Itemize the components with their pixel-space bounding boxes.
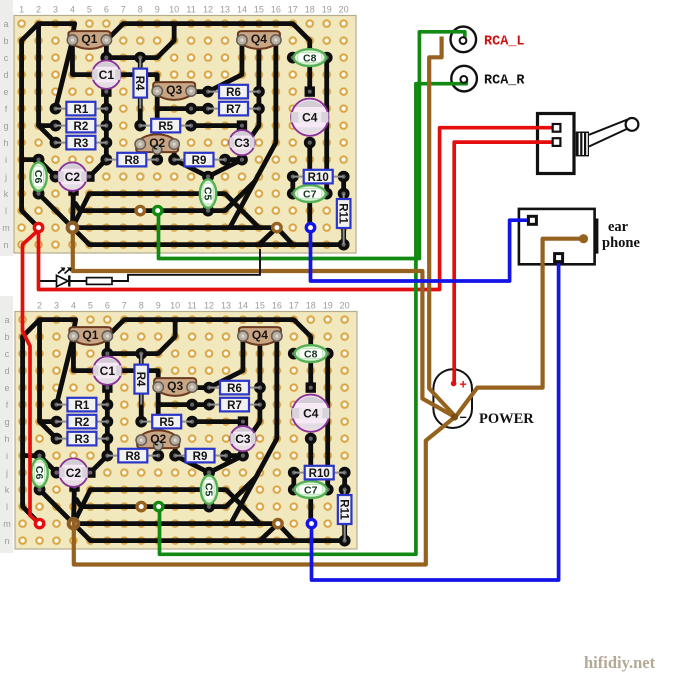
svg-text:hifidiy.net: hifidiy.net	[584, 653, 656, 672]
svg-text:RCA_R: RCA_R	[484, 74, 525, 89]
wire red switch terminal 2 to power plus	[454, 142, 552, 382]
wire green board2 to RCA_R pin	[160, 80, 467, 555]
board 2	[3, 301, 357, 550]
svg-text:−: −	[460, 411, 467, 425]
toggle switch body	[538, 114, 639, 174]
POWER plus terminal	[451, 378, 467, 392]
svg-text:RCA_L: RCA_L	[484, 35, 525, 50]
wire blue board1 ring to earphone tip	[311, 220, 531, 281]
board 1	[2, 5, 356, 254]
wire brown board1 hub to power minus	[73, 231, 453, 416]
diode and resistor power feed line	[40, 249, 260, 287]
left gutter board1	[0, 0, 13, 256]
wire green board1 to RCA_L pin	[159, 32, 465, 259]
svg-text:ear: ear	[608, 219, 629, 235]
RCA_R jack body	[451, 66, 477, 92]
wire brown RCA shells to power minus	[429, 37, 453, 415]
svg-text:+: +	[460, 378, 467, 392]
switch terminal 2	[553, 138, 561, 146]
wire brown power minus to board2 hub	[74, 417, 456, 565]
svg-text:POWER: POWER	[479, 411, 534, 427]
svg-text:phone: phone	[602, 235, 640, 251]
POWER minus terminal	[451, 411, 467, 425]
wire red board1 ring to switch terminal 1	[39, 128, 553, 290]
RCA_L jack body	[451, 27, 477, 53]
wire brown power minus to earphone sleeve	[457, 239, 582, 416]
wire red supply board1 ring to board2 ring	[23, 231, 39, 523]
switch terminal 1	[553, 124, 561, 132]
blob brown earphone	[579, 234, 588, 243]
earphone terminal ring	[555, 254, 563, 262]
RCA_R pin	[460, 76, 467, 83]
earphone terminal tip	[528, 216, 536, 224]
POWER battery body	[433, 369, 472, 428]
RCA_L pin	[460, 37, 467, 44]
wire blue board2 ring to earphone ring terminal	[312, 261, 559, 580]
left gutter board2	[0, 296, 13, 553]
earphone jack body	[519, 209, 598, 264]
